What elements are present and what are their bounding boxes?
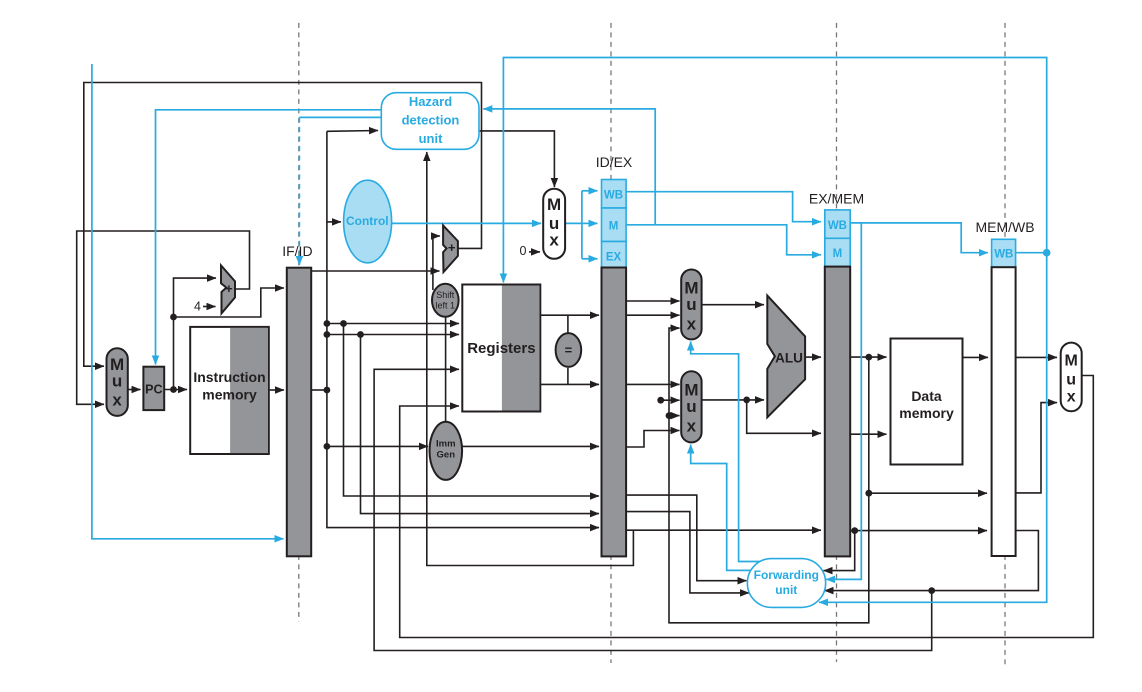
wire ForwardA from forwarding unit to mux A select [691, 342, 761, 562]
stage boundary dashed line MEM/WB [1004, 23, 1006, 664]
junction MEM/WB WB [1043, 249, 1051, 257]
wire mux B output down to EX/MEM write data [747, 400, 821, 433]
pipeline register MEM/WB WB box [992, 239, 1016, 267]
wire constant 4 to adder bottom input [203, 306, 216, 308]
wire ID/EX M to EX/MEM M [626, 225, 821, 255]
BLOCKS [107, 93, 1082, 608]
svg-text:Gen: Gen [437, 450, 456, 461]
mux PC-source [107, 348, 128, 416]
wire Registers read data 2 to ID/EX [540, 383, 599, 385]
svg-text:memory: memory [202, 387, 257, 403]
wire v3 rs2 down to ID/EX [361, 335, 600, 514]
wire constant 0 to control mux [529, 251, 540, 253]
wire distributor vertical [581, 191, 583, 259]
svg-text:u: u [686, 295, 696, 314]
junction rs2 branch v3 [357, 331, 364, 338]
junction MEM/WB rd split [928, 587, 935, 594]
svg-text:EX: EX [606, 252, 622, 264]
svg-text:u: u [112, 372, 122, 391]
svg-text:Control: Control [346, 214, 389, 228]
svg-text:WB: WB [604, 190, 623, 202]
wire forward mux A output to ALU input 1 [702, 304, 764, 306]
stage boundary dashed line EX/MEM [836, 23, 838, 662]
svg-text:WB: WB [828, 220, 847, 232]
wire shift-left-1 output up to branch adder top input [433, 236, 440, 290]
register PC [143, 367, 164, 410]
wire EX/MEM ALU result forwarding loop to mux A input 3 [669, 328, 869, 623]
wire ID/EX rs1 out to forwarding unit [626, 495, 746, 581]
svg-text:M: M [609, 221, 619, 233]
junction ALU result to MEM/WB [865, 490, 872, 497]
svg-text:M: M [1065, 353, 1078, 370]
wire ID/EX read data 1 out to forward mux A input 1 [626, 300, 679, 302]
ALU [767, 296, 805, 418]
svg-text:x: x [1067, 389, 1076, 406]
wire hazard unit stall to control mux [479, 131, 554, 187]
svg-text:Forwarding: Forwarding [754, 568, 819, 582]
ellipse shift left 1 [432, 284, 459, 317]
wire EX/MEM WB to MEM/WB WB [850, 223, 988, 253]
pipeline register EX/MEM WB box [825, 210, 850, 238]
junction rs1 branch v2 [340, 320, 347, 327]
wire IF/ID write dashed drop [298, 117, 300, 258]
wire ID/EX rd out to EX/MEM [626, 529, 821, 531]
junction EX/MEM rd split [851, 527, 858, 534]
wire v1 vertical instruction bus [327, 131, 599, 527]
pipeline register IF/ID [287, 268, 311, 557]
wire PC value up to PC+4 adder top input [174, 278, 217, 389]
wire EX/MEM write data to data memory [850, 433, 886, 435]
svg-text:ID/EX: ID/EX [596, 154, 633, 170]
junction mux B output split [743, 397, 750, 404]
wire ID/EX immediate out to forward mux B input 4 [626, 431, 679, 448]
svg-text:memory: memory [899, 405, 954, 421]
svg-text:Hazard: Hazard [409, 94, 452, 109]
junction immgen tap on v1 [324, 443, 331, 450]
wire control WB into ID/EX [582, 190, 598, 192]
wire Registers read data 1 to ID/EX [540, 314, 599, 316]
svg-text:x: x [549, 231, 559, 250]
wire IF/ID write arrow into IF/ID [298, 254, 300, 265]
junction EX/MEM ALU result [865, 354, 872, 361]
wire PC mux output to PC [128, 389, 141, 391]
pipeline register ID/EX EX box [602, 242, 627, 268]
adder PC+4 [221, 265, 235, 313]
junction rs1 on v1 [324, 320, 331, 327]
wire ID/EX MemRead to hazard detection unit [483, 109, 655, 225]
wire PCWrite from hazard unit to PC [156, 110, 382, 365]
wire instruction to Imm Gen [327, 445, 428, 447]
data memory [891, 339, 963, 465]
wire control M into ID/EX [582, 222, 598, 224]
wire MEM/WB read data to final mux input 1 [1016, 356, 1057, 358]
wire ID/EX out to forward mux A input 2 [626, 314, 679, 316]
adder branch target [443, 225, 458, 272]
stage boundary dashed line ID/EX [610, 23, 612, 663]
svg-text:PC: PC [145, 383, 162, 397]
junction PC output [170, 386, 177, 393]
svg-text:unit: unit [419, 131, 443, 146]
wire control mux output to distributor [565, 222, 582, 224]
ellipse Imm Gen [430, 422, 463, 480]
wire MEM/WB WB out to junction [1016, 252, 1046, 254]
wire MEM/WB RegWrite down to forwarding unit [819, 253, 1047, 603]
instruction memory shaded half [230, 328, 268, 453]
wire PC value to IF/ID [174, 288, 285, 317]
instruction memory [190, 327, 269, 454]
svg-text:unit: unit [775, 583, 797, 597]
wire MEM/WB ALU result to final mux input 2 [1016, 403, 1057, 493]
svg-text:Imm: Imm [436, 439, 456, 450]
pipeline register ID/EX [602, 268, 627, 557]
wire MEM/WB rd to forwarding unit [825, 531, 1039, 591]
wire instruction memory output to IF/ID [269, 389, 284, 391]
svg-text:x: x [687, 417, 697, 436]
pipeline register EX/MEM M box [825, 238, 850, 266]
svg-text:+: + [448, 240, 456, 255]
svg-text:Data: Data [911, 388, 942, 404]
svg-text:0: 0 [520, 244, 527, 258]
wire MEM/WB value stub to forward mux B input 2 [661, 399, 680, 401]
wire Imm Gen top to shift-left-1 [445, 317, 447, 422]
wire branch-target: ID adder output loop to PC mux input 1 [84, 83, 482, 367]
pipeline register MEM/WB [992, 267, 1016, 556]
WIRES-BLACK [77, 83, 1094, 651]
wire EX/MEM rd down to forwarding unit [824, 531, 855, 571]
svg-text:Instruction: Instruction [193, 369, 265, 385]
junction stub dot mux B input 2 [657, 397, 664, 404]
pipeline register ID/EX WB box [602, 180, 627, 209]
svg-text:x: x [687, 315, 697, 334]
svg-text:=: = [565, 343, 573, 358]
stage boundary dashed line IF/ID [298, 23, 300, 622]
mux write-back [1061, 343, 1082, 412]
wire control EX into ID/EX [582, 258, 598, 260]
svg-text:+: + [225, 281, 233, 296]
comparator equals ellipse [556, 333, 582, 367]
WIRES-CYAN [92, 58, 1051, 603]
pipeline register EX/MEM [825, 267, 850, 557]
wire rs1 to Registers read register 1 [327, 323, 459, 325]
wire rs2 to Registers read register 2 [327, 334, 459, 336]
wire EX/MEM ALU result to data memory address [850, 356, 886, 358]
mux forward B [681, 371, 701, 442]
wire Control output to control mux [392, 222, 541, 224]
junction instruction v1 [324, 387, 331, 394]
junction rs2 on v1 [324, 331, 331, 338]
mux forward A [681, 270, 701, 340]
svg-text:EX/MEM: EX/MEM [809, 190, 864, 206]
wire v1 to Control [327, 221, 341, 223]
junction PC value at y317 [170, 314, 177, 321]
svg-text:MEM/WB: MEM/WB [975, 219, 1034, 235]
svg-text:Shift: Shift [436, 290, 455, 300]
wire read data 2 tap to comparator bottom [567, 368, 569, 385]
wire v5 write-data from final mux to Registers [400, 376, 1094, 638]
wire forward mux B output to ALU input 2 [702, 399, 764, 401]
wire v2 rs1 down to ID/EX [344, 324, 600, 497]
wire ALU output to EX/MEM [805, 356, 821, 358]
svg-text:ALU: ALU [775, 350, 803, 365]
wire v4 write-register from bottom bus to Registers [374, 369, 932, 650]
svg-text:u: u [686, 397, 696, 416]
wire Imm Gen output to ID/EX [462, 445, 599, 447]
wire ALU result branch to forward mux B input 3 [669, 415, 680, 417]
svg-text:detection: detection [402, 113, 460, 128]
registers shaded half [502, 286, 540, 411]
wire ID/EX rd to hazard detection via under-bar path [427, 152, 634, 566]
wire data memory read data to MEM/WB [963, 356, 989, 358]
registers file [462, 285, 540, 412]
hazard detection unit [381, 93, 479, 150]
junction ALU result forward B [666, 412, 673, 419]
wire ID/EX rs2 out to forwarding unit [626, 512, 749, 593]
svg-text:IF/ID: IF/ID [282, 243, 312, 259]
svg-text:M: M [547, 195, 561, 214]
wire IF/ID PC out to branch adder bottom input [311, 270, 439, 272]
wire EX/MEM rd to MEM/WB [850, 530, 987, 532]
svg-text:WB: WB [994, 249, 1013, 261]
svg-text:4: 4 [194, 300, 201, 314]
wire PCSrc left line into IF/ID [92, 64, 284, 539]
control unit ellipse [344, 180, 392, 263]
wire IF/ID instruction out to v1 [311, 389, 327, 391]
wire RegWrite loop over top to Registers [503, 58, 1046, 283]
forwarding unit [747, 559, 825, 608]
svg-text:x: x [112, 391, 122, 410]
wire ALU result branch to MEM/WB [869, 492, 987, 494]
wire ForwardB from forwarding unit to mux B select [691, 445, 752, 571]
pipeline register ID/EX M box [602, 208, 627, 242]
svg-text:M: M [833, 248, 843, 260]
wire ID/EX WB to EX/MEM WB [626, 192, 821, 222]
svg-text:Registers: Registers [467, 340, 535, 357]
svg-text:left 1: left 1 [436, 300, 456, 310]
wire EX/MEM RegWrite down to forwarding unit [826, 223, 861, 580]
wire read data 1 tap to comparator top [567, 315, 569, 333]
wire v1 to hazard detection unit [327, 130, 378, 133]
svg-text:u: u [1066, 372, 1076, 389]
mux control-zero [543, 189, 565, 259]
wire PC+4: adder output loop to PC mux input 2 [77, 231, 250, 404]
wire PC output to instruction memory [164, 389, 187, 391]
wire ID/EX read data 2 out to forward mux B input 1 [626, 383, 679, 385]
wire IF/ID write from hazard unit down stage line [299, 116, 381, 118]
